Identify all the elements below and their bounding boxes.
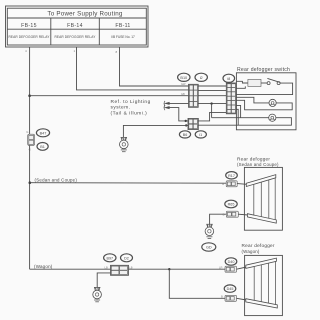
wire B97/D2 ground stub to G3 [97, 273, 110, 288]
oval i8 [223, 74, 235, 82]
svg-text:Rear defogger switch: Rear defogger switch [237, 67, 290, 73]
svg-text:To Power Supply Routing: To Power Supply Routing [47, 11, 123, 18]
svg-text:(Wagon): (Wagon) [34, 264, 53, 269]
oval R17 [226, 172, 238, 179]
label rear defogger wagon [242, 243, 275, 254]
wire FB-14 feed [74, 47, 189, 90]
oval B10 [178, 73, 190, 81]
svg-text:Rear defogger: Rear defogger [242, 243, 275, 248]
svg-text:B: B [222, 182, 224, 186]
svg-text:REAR DEFOGGER RELAY: REAR DEFOGGER RELAY [9, 35, 51, 39]
svg-text:Rear defogger: Rear defogger [237, 157, 270, 162]
wire FB-15 main feed vertical [25, 47, 30, 134]
wire J2 down to illumination lamp row [211, 104, 213, 118]
connector R65 [223, 211, 239, 217]
connector D40 [219, 266, 237, 273]
svg-text:(Sedan and Coupe): (Sedan and Coupe) [237, 162, 279, 167]
oval ground code GD [202, 243, 216, 251]
wire switch to right loop [236, 83, 292, 95]
rear defogger sedan box [244, 167, 282, 230]
svg-text:FB-15: FB-15 [21, 23, 37, 29]
wire wagon to D40 [129, 268, 226, 270]
svg-text:i8: i8 [227, 77, 230, 81]
node illumination return junction [185, 124, 187, 126]
power supply routing box [6, 6, 149, 47]
connector B6/i1 block [188, 118, 198, 129]
connector B10/i2 block [181, 82, 198, 107]
wire timer to switch [261, 82, 267, 84]
oval i2 [195, 73, 207, 81]
node tail feed junction J2 [210, 102, 212, 104]
node junction FB-15/switch feed [28, 94, 31, 97]
oval B1 [37, 143, 48, 151]
node wagon branch split [168, 268, 170, 270]
oval B6 [179, 131, 190, 138]
wire switch feed stub2 [236, 86, 245, 88]
svg-text:LB: LB [105, 265, 108, 269]
svg-text:B10: B10 [180, 76, 187, 80]
svg-text:D45: D45 [227, 287, 234, 291]
wire B10/i2 row4 to i8 [198, 103, 226, 105]
connector R17 [222, 181, 237, 187]
wire main feed continues [29, 145, 31, 269]
wire FB-11 feed [116, 47, 189, 86]
wire lamp1 return loop [236, 100, 292, 110]
wire lamp2 return loop [198, 118, 291, 126]
wire lamp1 feed [236, 97, 269, 103]
wire R17 to grid [237, 183, 247, 186]
text ref to lighting system [111, 99, 151, 116]
svg-text:D2: D2 [124, 256, 129, 260]
svg-text:B97: B97 [107, 256, 114, 260]
wire switch feed horizontal [30, 95, 189, 97]
defogger grid sedan [246, 175, 276, 224]
svg-text:GB: GB [181, 92, 185, 96]
svg-text:FB-14: FB-14 [67, 23, 83, 29]
ground G1 [120, 137, 129, 151]
lamp L2 illumination [269, 114, 276, 121]
svg-text:i2: i2 [200, 76, 203, 80]
wire wagon branch [30, 268, 111, 270]
svg-text:i1: i1 [199, 133, 202, 137]
svg-text:REAR DEFOGGER RELAY: REAR DEFOGGER RELAY [55, 35, 97, 39]
connector B47/B1 inline [26, 130, 34, 151]
wire D40 to grid [237, 267, 247, 269]
svg-text:(Tail & Illumi.): (Tail & Illumi.) [111, 110, 148, 116]
wire switch feed step [236, 81, 248, 83]
svg-text:system.: system. [111, 105, 131, 111]
svg-text:B47: B47 [40, 131, 47, 135]
wire tail feed with arrow A [164, 101, 189, 106]
rear defogger switch box [236, 73, 296, 130]
wire illumination return to ground G1 [123, 125, 188, 137]
svg-text:G: G [26, 130, 28, 134]
svg-text:(Sedan and Coupe): (Sedan and Coupe) [35, 178, 78, 183]
node illumination feed junction [185, 120, 187, 122]
svg-text:LB: LB [129, 265, 132, 269]
wire i8 stub to lamp2 feed [236, 105, 240, 117]
svg-text:B1: B1 [40, 145, 45, 149]
wire R65 to grid [238, 213, 248, 216]
oval R65 [225, 200, 237, 208]
lamp L1 indicator [269, 99, 276, 106]
svg-text:D40: D40 [228, 260, 235, 264]
node sedan branch [29, 181, 32, 184]
rear defogger wagon box [245, 255, 283, 315]
wire B10/i2 row2 to i8 [198, 89, 226, 91]
svg-text:B: B [221, 295, 223, 299]
wire D45 to grid [237, 298, 247, 300]
svg-text:(Wagon): (Wagon) [242, 249, 260, 254]
svg-text:B6: B6 [183, 133, 188, 137]
svg-text:LR: LR [219, 266, 222, 270]
ground G3 [93, 287, 102, 301]
ground G2 [205, 224, 214, 238]
oval D40 [225, 258, 237, 265]
svg-text:I/B FUSE No. 17: I/B FUSE No. 17 [111, 35, 135, 39]
svg-text:GW: GW [181, 82, 186, 86]
wire sedan branch [30, 182, 226, 185]
oval B47 [36, 129, 49, 137]
wire illumination feed with arrow B [164, 105, 188, 121]
wire R65 to ground G2 [210, 214, 227, 224]
wire lamp2 row feed [212, 117, 269, 119]
switch SW1 [267, 78, 280, 84]
connector D45 [221, 295, 237, 302]
svg-text:GD: GD [206, 246, 212, 250]
defogger grid wagon [246, 258, 277, 308]
oval i1 [195, 131, 206, 138]
oval D45 [224, 285, 236, 292]
wire B6/i1 row1 up to i8 [198, 112, 226, 121]
svg-text:R65: R65 [228, 203, 235, 207]
timer unit rectangle [248, 79, 261, 86]
wire B10/i2 row1 to i8 [198, 85, 226, 87]
connector B97/D2 block [105, 265, 133, 275]
svg-text:FB-11: FB-11 [115, 23, 130, 29]
wire branch to D45 [169, 269, 225, 298]
connector i8 [226, 83, 236, 114]
oval B97 [104, 254, 116, 262]
wire i8 stub to lamp2 return [236, 109, 238, 125]
oval D2 [121, 254, 133, 262]
svg-text:Ref. to Lighting: Ref. to Lighting [111, 99, 151, 105]
wire B10/i2 row3 to i8 [198, 95, 226, 97]
svg-text:R17: R17 [228, 174, 235, 178]
label rear defogger sedan [237, 157, 279, 168]
